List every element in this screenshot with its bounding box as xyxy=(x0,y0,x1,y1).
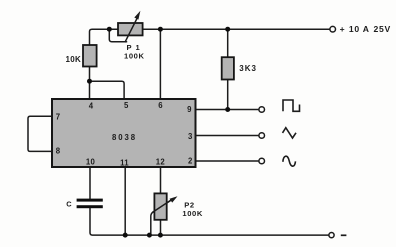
svg-text:4: 4 xyxy=(89,101,94,110)
svg-text:7: 7 xyxy=(56,112,60,121)
svg-text:100K: 100K xyxy=(182,209,203,218)
svg-text:3: 3 xyxy=(188,132,193,141)
svg-text:10: 10 xyxy=(349,24,360,34)
svg-text:A: A xyxy=(363,24,370,34)
svg-text:C: C xyxy=(66,199,72,208)
svg-text:8: 8 xyxy=(56,147,61,156)
svg-text:11: 11 xyxy=(120,159,129,168)
svg-text:9: 9 xyxy=(187,105,192,114)
svg-text:10: 10 xyxy=(86,158,96,167)
svg-text:100K: 100K xyxy=(124,51,145,60)
svg-text:12: 12 xyxy=(156,158,166,167)
svg-text:25V: 25V xyxy=(374,24,391,34)
svg-text:6: 6 xyxy=(158,101,163,110)
svg-text:2: 2 xyxy=(188,156,193,165)
svg-text:+: + xyxy=(340,24,346,34)
svg-text:8038: 8038 xyxy=(112,133,137,142)
svg-text:5: 5 xyxy=(124,101,129,110)
svg-text:3K3: 3K3 xyxy=(239,64,257,73)
svg-text:10K: 10K xyxy=(66,55,82,64)
